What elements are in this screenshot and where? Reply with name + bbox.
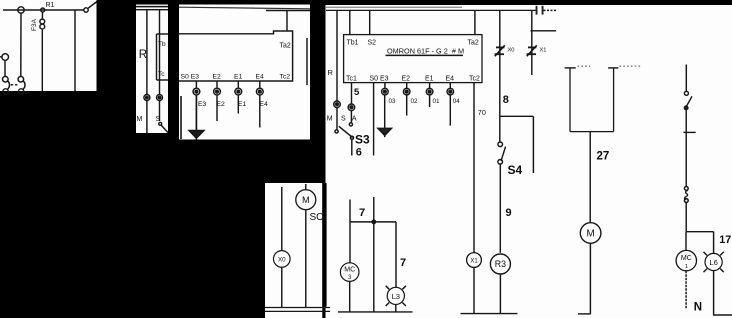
P3: terminal E2	[214, 88, 221, 95]
P3: left cut wire	[180, 96, 182, 139]
wire to lower contact	[685, 132, 687, 186]
contactor coil MC3	[340, 263, 359, 312]
svg-text:5: 5	[354, 87, 360, 98]
paper panel P4 main	[326, 5, 732, 318]
right branch wire	[685, 65, 687, 92]
svg-text:9: 9	[506, 207, 512, 219]
relay X1 coil	[467, 253, 482, 314]
cut wire right of X1	[531, 30, 557, 32]
P3: terminal E1	[235, 88, 242, 95]
terminal A	[348, 83, 355, 123]
P3: wire near right edge	[306, 38, 308, 85]
P1: junction node	[41, 8, 45, 12]
svg-text:17: 17	[719, 234, 731, 246]
contact M open circle	[335, 130, 338, 133]
motor M	[578, 223, 601, 314]
paper panel P3	[179, 5, 310, 140]
branch to lamp L6	[686, 232, 714, 254]
terminal E2 main	[403, 88, 410, 95]
terminal M	[334, 101, 341, 130]
svg-text:Tb: Tb	[158, 41, 166, 48]
wire R/M	[336, 10, 338, 101]
terminal E1 main	[426, 88, 433, 95]
paper panel P5 M/SO	[265, 183, 322, 318]
svg-text:S: S	[341, 116, 346, 123]
svg-text:Tc1: Tc1	[346, 75, 357, 82]
P1: switch contact circle right	[84, 2, 97, 13]
P3: ground symbol	[189, 131, 204, 140]
P5: bottom double line	[265, 308, 330, 312]
wire Tb1	[349, 10, 351, 34]
P3: wire E4	[259, 81, 261, 128]
svg-text:E2: E2	[402, 75, 411, 82]
P1: fuse F3A circles	[40, 19, 45, 29]
svg-text:X0: X0	[278, 256, 286, 263]
svg-text:L3: L3	[392, 292, 400, 301]
P1: wire right vertical	[74, 10, 76, 91]
P3: wire E2	[216, 81, 218, 121]
black gap strip between P5 and P4	[322, 183, 326, 307]
P1: wire fuse branch	[41, 12, 43, 91]
terminal E3 main	[382, 88, 389, 95]
contact A open circle	[349, 123, 352, 126]
svg-text:S3: S3	[355, 133, 370, 147]
paper panel P2 strip	[136, 5, 168, 134]
lamp L6	[704, 252, 724, 315]
paper panel P1 top-left	[0, 0, 97, 91]
P5: motor M circle	[296, 190, 316, 210]
svg-text:SO: SO	[310, 212, 325, 223]
switch S4	[498, 142, 506, 164]
svg-text:R: R	[328, 68, 334, 77]
svg-text:MC: MC	[681, 255, 692, 262]
svg-text:X0: X0	[508, 48, 515, 54]
svg-text:Tc2: Tc2	[280, 74, 291, 81]
svg-text:E1: E1	[425, 75, 434, 82]
svg-text:A: A	[352, 116, 357, 123]
wire below S3	[351, 140, 353, 156]
svg-text:3: 3	[348, 274, 352, 281]
svg-text:Tc2: Tc2	[469, 75, 480, 82]
OMRON unit box U1	[344, 35, 482, 83]
svg-text:E1: E1	[238, 101, 247, 108]
svg-text:E1: E1	[234, 74, 243, 81]
P1: mechanical link arc	[11, 84, 18, 86]
wire E2 main	[406, 83, 408, 116]
svg-text:S4: S4	[508, 163, 523, 177]
svg-text:7: 7	[359, 207, 365, 219]
tank level dashes	[578, 65, 643, 67]
ground arrow	[378, 128, 392, 137]
P1: coil terminal circle lower-left	[0, 54, 9, 77]
P5: wire X0	[281, 187, 283, 307]
P2: wire M	[146, 10, 148, 133]
wire 70 Tc2	[473, 83, 475, 253]
svg-text:F3A: F3A	[31, 18, 38, 31]
bottom bus right	[713, 314, 732, 316]
svg-text:S0 E3: S0 E3	[370, 75, 389, 82]
svg-text:MC: MC	[344, 267, 355, 274]
P1: terminal circle left	[18, 7, 24, 13]
tank left wall	[565, 68, 576, 132]
svg-text:1: 1	[685, 264, 688, 270]
P2: switch blade start	[159, 122, 168, 132]
upper contact	[684, 91, 692, 109]
svg-text:6: 6	[356, 147, 362, 159]
P3: terminal E3	[193, 88, 200, 95]
wire 27	[589, 132, 591, 223]
P3: bus line	[266, 10, 310, 12]
svg-text:E4: E4	[256, 74, 265, 81]
svg-text:Ta2: Ta2	[468, 40, 479, 47]
svg-text:E4: E4	[260, 101, 269, 108]
svg-text:S: S	[156, 116, 161, 123]
svg-text:27: 27	[597, 151, 610, 163]
lamp L3	[386, 286, 406, 312]
svg-text:Ta2: Ta2	[280, 43, 291, 50]
svg-text:R3: R3	[495, 259, 506, 269]
branch to lamp L3	[350, 222, 396, 288]
wire S0 ground branch	[373, 83, 375, 156]
wire to junction	[685, 203, 687, 232]
P1: contactor main contacts	[3, 76, 26, 94]
svg-text:70: 70	[478, 108, 486, 117]
P2: terminal S	[157, 95, 163, 101]
P2: terminal M	[144, 95, 150, 101]
wire Ta2	[474, 10, 476, 34]
P2: wire S	[159, 10, 161, 121]
black gap between P3 and P4	[310, 0, 326, 183]
capacitor on bus	[536, 6, 544, 15]
svg-text:E4: E4	[446, 75, 455, 82]
lower contact	[684, 187, 688, 203]
svg-text:E3: E3	[198, 101, 207, 108]
P3: wire E1	[237, 81, 239, 114]
P3: relay unit box	[179, 31, 293, 81]
bottom bus under MC3 L3	[338, 311, 413, 313]
svg-text:Tc: Tc	[158, 71, 165, 78]
terminal E4 main	[447, 88, 454, 95]
bottom bus under X1 R3	[461, 313, 518, 315]
svg-text:X1: X1	[540, 48, 547, 54]
P1: wire down left	[20, 13, 22, 76]
tank right wall	[608, 68, 618, 132]
wire below contact	[685, 110, 687, 132]
terminal tick	[683, 131, 695, 133]
P3: wire E3 to ground	[195, 81, 197, 131]
svg-text:8: 8	[503, 94, 509, 106]
svg-text:OMRON 61F - G 2 # M: OMRON 61F - G 2 # M	[387, 47, 464, 56]
junction node 7	[372, 220, 375, 223]
wire E4 main	[449, 83, 451, 126]
svg-text:S0 E3: S0 E3	[181, 74, 200, 81]
svg-text:M: M	[327, 116, 333, 123]
svg-text:M: M	[302, 195, 310, 205]
P5: relay X0 coil	[274, 251, 291, 268]
svg-text:R: R	[139, 49, 147, 61]
svg-text:01: 01	[433, 98, 441, 105]
svg-text:02: 02	[411, 98, 419, 105]
svg-text:M: M	[587, 229, 595, 240]
svg-text:E2: E2	[217, 101, 226, 108]
P3: terminal E4	[256, 88, 263, 95]
P3: top border line	[179, 7, 310, 9]
OMRON label underline	[386, 54, 464, 56]
svg-text:04: 04	[453, 98, 461, 105]
wire S2	[369, 10, 371, 34]
wire 9	[499, 164, 501, 252]
svg-text:03: 03	[389, 98, 397, 105]
contactor coil MC1	[676, 232, 696, 309]
svg-text:S2: S2	[368, 40, 377, 47]
wire 7 middle	[373, 197, 375, 312]
wire E1 main	[429, 83, 431, 107]
svg-text:X1: X1	[470, 259, 478, 265]
svg-text:M: M	[137, 116, 143, 123]
switch S3 blade	[339, 126, 354, 139]
P1: top bus wire	[3, 9, 84, 11]
P4: top bus wire	[326, 9, 556, 11]
contact X1 branch	[527, 10, 537, 75]
branch wire right	[500, 116, 534, 173]
P5: wire M	[305, 184, 307, 307]
svg-text:N: N	[694, 302, 702, 314]
svg-text:E2: E2	[213, 74, 222, 81]
P2: relay box fragment edge	[157, 34, 169, 80]
tank bottom	[570, 131, 614, 133]
wire E3 to ground arrow	[384, 83, 386, 128]
contact X0 branch	[495, 10, 505, 143]
wire 7 left	[349, 200, 351, 263]
svg-text:7: 7	[400, 257, 406, 269]
P3: wire to box top	[286, 11, 288, 32]
relay R3 coil	[490, 254, 510, 313]
P4: top border line	[326, 6, 462, 8]
svg-text:Tb1: Tb1	[347, 40, 359, 47]
svg-text:R1: R1	[46, 2, 55, 9]
svg-text:L6: L6	[709, 258, 717, 267]
P2: top border lines	[136, 7, 168, 10]
